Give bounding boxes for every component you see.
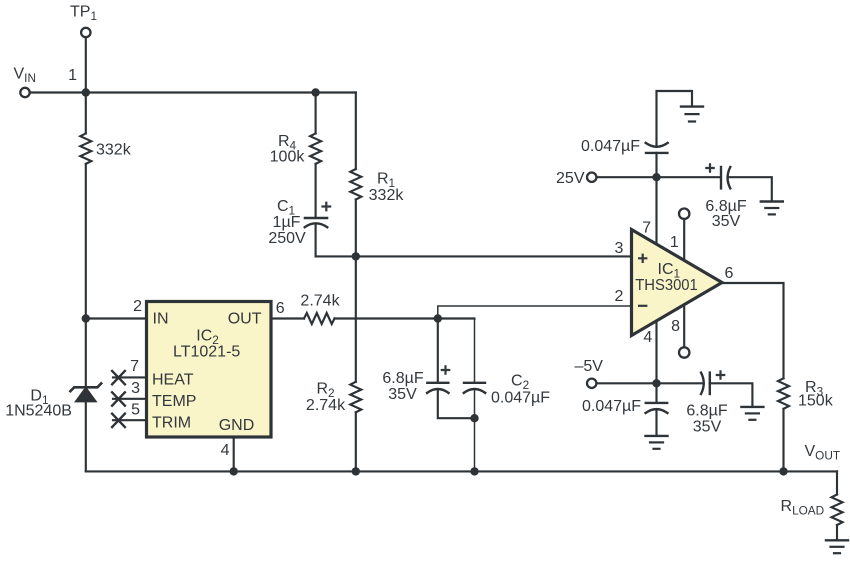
wire R1 bottom to R2 (355, 200, 357, 382)
junction cap bottoms (470, 414, 478, 422)
wire RLOAD to ground (836, 525, 838, 540)
terminal pin8 (679, 347, 689, 357)
wire pin7 supply into op-amp (655, 177, 657, 245)
op-amp plus input mark (638, 254, 647, 263)
plus 6.8uF mid (441, 365, 451, 375)
svg-text:2: 2 (614, 288, 623, 305)
terminal -5V (587, 379, 596, 388)
X mark TRIM pin (112, 414, 125, 427)
resistor R1 332k (350, 169, 361, 200)
junction GND pin (230, 467, 238, 475)
resistor 332k (80, 133, 91, 164)
svg-text:1: 1 (68, 67, 77, 84)
junction R2 bottom (352, 467, 360, 475)
wire TRIM stub (113, 419, 147, 421)
plus 6.8uF -5V (716, 370, 726, 380)
ground 6.8uF 25V (761, 200, 783, 202)
op-amp U1 THS3001 body (632, 230, 723, 336)
svg-text:6.8µF: 6.8µF (382, 370, 423, 387)
wire 25V rail top x=656.5 (657, 91, 693, 147)
resistor RLOAD (832, 495, 843, 526)
svg-text:0.047µF: 0.047µF (581, 138, 640, 155)
wire -5V junction to cap (655, 383, 657, 403)
wire 6.8uF bottom jog (438, 389, 475, 418)
svg-text:4: 4 (643, 329, 652, 346)
svg-text:35V: 35V (388, 386, 417, 403)
svg-text:IN: IN (153, 311, 169, 328)
wire TEMP stub (113, 398, 147, 400)
wire feedback node (335, 317, 475, 319)
svg-text:THS3001: THS3001 (635, 277, 698, 294)
wire op-amp output (722, 283, 784, 378)
svg-text:2: 2 (133, 298, 142, 315)
wire C2 branch x=474.5 (474, 319, 476, 383)
junction R1 bottom / +input (352, 252, 360, 260)
wire feedback jog to inverting input (438, 306, 631, 319)
capacitor 6.8uF top plate (427, 382, 448, 384)
svg-text:6: 6 (725, 265, 734, 282)
capacitor 6.8uF -5V flat plate (709, 373, 711, 394)
resistor R2 2.74k (350, 382, 361, 413)
wire R2 bottom (355, 412, 357, 471)
diode D1 anode triangle (76, 388, 96, 401)
ground 6.8uF -5V (741, 406, 763, 408)
ground RLOAD (826, 539, 848, 541)
svg-text:2.74k: 2.74k (300, 292, 340, 309)
svg-text:2.74k: 2.74k (306, 397, 346, 414)
plus C1 (321, 202, 331, 212)
svg-text:250V: 250V (268, 230, 306, 247)
junction C2 bottom (470, 467, 478, 475)
wire left rail x=85.8 (top section to resistor) (85, 93, 87, 134)
wire R1 branch x=355.8 top (355, 93, 357, 170)
svg-text:5: 5 (131, 401, 140, 418)
svg-text:3: 3 (131, 380, 140, 397)
capacitor 6.8uF curved bottom plate (427, 389, 448, 393)
capacitor C2 top plate (464, 382, 485, 384)
svg-text:8: 8 (671, 318, 680, 335)
wire 25V rail y=177.2 (598, 176, 721, 178)
wire R3 bottom to VOUT node (782, 409, 784, 472)
svg-text:OUT: OUT (228, 311, 262, 328)
capacitor 0.047uF -5V curved plate (646, 409, 668, 413)
capacitor C1 curved bottom plate (305, 223, 328, 227)
IC2 LT1021-5 body (147, 302, 272, 438)
svg-text:6.8µF: 6.8µF (686, 403, 727, 420)
wire C1 to noninverting node (315, 224, 317, 257)
ground top right (681, 105, 703, 107)
junction feedback node (434, 314, 442, 322)
wire 6.8uF -5V to ground (710, 383, 753, 406)
wire pin4 to -5V junction (655, 322, 657, 384)
wire noninverting input rail y=256.4 (316, 255, 631, 257)
wire C2 bottom to ground rail (474, 389, 476, 471)
svg-text:3: 3 (614, 240, 623, 257)
svg-text:GND: GND (219, 417, 255, 434)
capacitor C2 curved bottom plate (464, 389, 485, 393)
wire IC2 GND pin 4 (233, 437, 235, 471)
junction 25V (652, 173, 660, 181)
capacitor C1 top plate (305, 217, 327, 219)
wire pin1 stub (683, 220, 685, 260)
svg-text:6: 6 (276, 300, 285, 317)
terminal 25V (587, 173, 596, 182)
capacitor 6.8uF 25V flat plate (720, 167, 722, 188)
wire 0.047uF -5V to ground (655, 409, 657, 435)
X mark HEAT pin (112, 371, 125, 384)
svg-text:7: 7 (642, 219, 651, 236)
svg-text:0.047µF: 0.047µF (582, 398, 641, 415)
wire 6.8uF cap branch x=437.8 (437, 319, 439, 383)
junction IN pin tap (82, 314, 90, 322)
wire TP1 stub (85, 39, 87, 93)
wire 0.047uF to 25V junction (655, 153, 657, 177)
resistor R4 100k (310, 133, 321, 164)
svg-text:1: 1 (670, 234, 679, 251)
wire VOUT drop to RLOAD (836, 471, 838, 494)
capacitor 6.8uF 25V curved plate (728, 167, 731, 188)
svg-text:0.047µF: 0.047µF (491, 389, 550, 406)
wire left rail x=85.8 (middle section) (85, 164, 87, 387)
svg-text:7: 7 (130, 358, 139, 375)
terminal TP1 (81, 28, 90, 37)
svg-text:–5V: –5V (575, 358, 604, 375)
svg-text:4: 4 (221, 442, 230, 459)
junction R4 tap (311, 88, 319, 96)
svg-text:TRIM: TRIM (152, 414, 191, 431)
svg-text:1µF: 1µF (273, 214, 301, 231)
svg-text:332k: 332k (96, 142, 132, 159)
plus 6.8uF 25V (705, 163, 715, 173)
svg-text:100k: 100k (270, 148, 306, 165)
wire 6.8uF 25V to ground (728, 177, 772, 200)
wire OUT pin 6 of IC2 to resistor (271, 317, 304, 319)
capacitor 0.047uF bottom plate (646, 152, 667, 154)
svg-text:35V: 35V (693, 418, 722, 435)
junction VIN/TP1 (82, 88, 90, 96)
resistor 2.74k horizontal (304, 313, 335, 324)
svg-text:TEMP: TEMP (152, 393, 196, 410)
svg-text:HEAT: HEAT (152, 372, 194, 389)
diode D1 cathode bar (70, 383, 101, 391)
capacitor 0.047uF top curved plate (646, 143, 668, 147)
wire R4 branch x=315.6 (315, 93, 317, 134)
capacitor 0.047uF -5V top plate (646, 402, 667, 404)
wire main input rail y=92.5 (31, 91, 356, 93)
wire pin8 stub (683, 305, 685, 347)
svg-text:1N5240B: 1N5240B (5, 403, 72, 420)
svg-text:LT1021-5: LT1021-5 (173, 343, 240, 360)
resistor R3 150k (778, 378, 789, 409)
terminal VIN (20, 88, 29, 97)
capacitor 6.8uF -5V curved plate (701, 373, 704, 394)
wire -5V rail y=383.3 (598, 382, 704, 384)
op-amp minus input mark (638, 305, 647, 307)
junction -5V (652, 379, 660, 387)
wire bottom ground rail y=471.4 (86, 470, 837, 472)
junction VOUT (779, 467, 787, 475)
terminal pin1 (679, 209, 689, 219)
wire IN pin 2 of IC2 (86, 317, 147, 319)
wire R4 to C1 (315, 164, 317, 218)
wire HEAT stub (113, 376, 147, 378)
svg-text:150k: 150k (798, 393, 834, 410)
ground 0.047uF -5V (646, 435, 668, 437)
plus/minus symbols as strokes (321, 163, 725, 380)
svg-text:332k: 332k (369, 187, 405, 204)
wire left rail x=85.8 (bottom section) (85, 401, 87, 471)
svg-text:25V: 25V (556, 170, 585, 187)
X mark TEMP pin (112, 392, 125, 405)
svg-text:35V: 35V (712, 213, 741, 230)
